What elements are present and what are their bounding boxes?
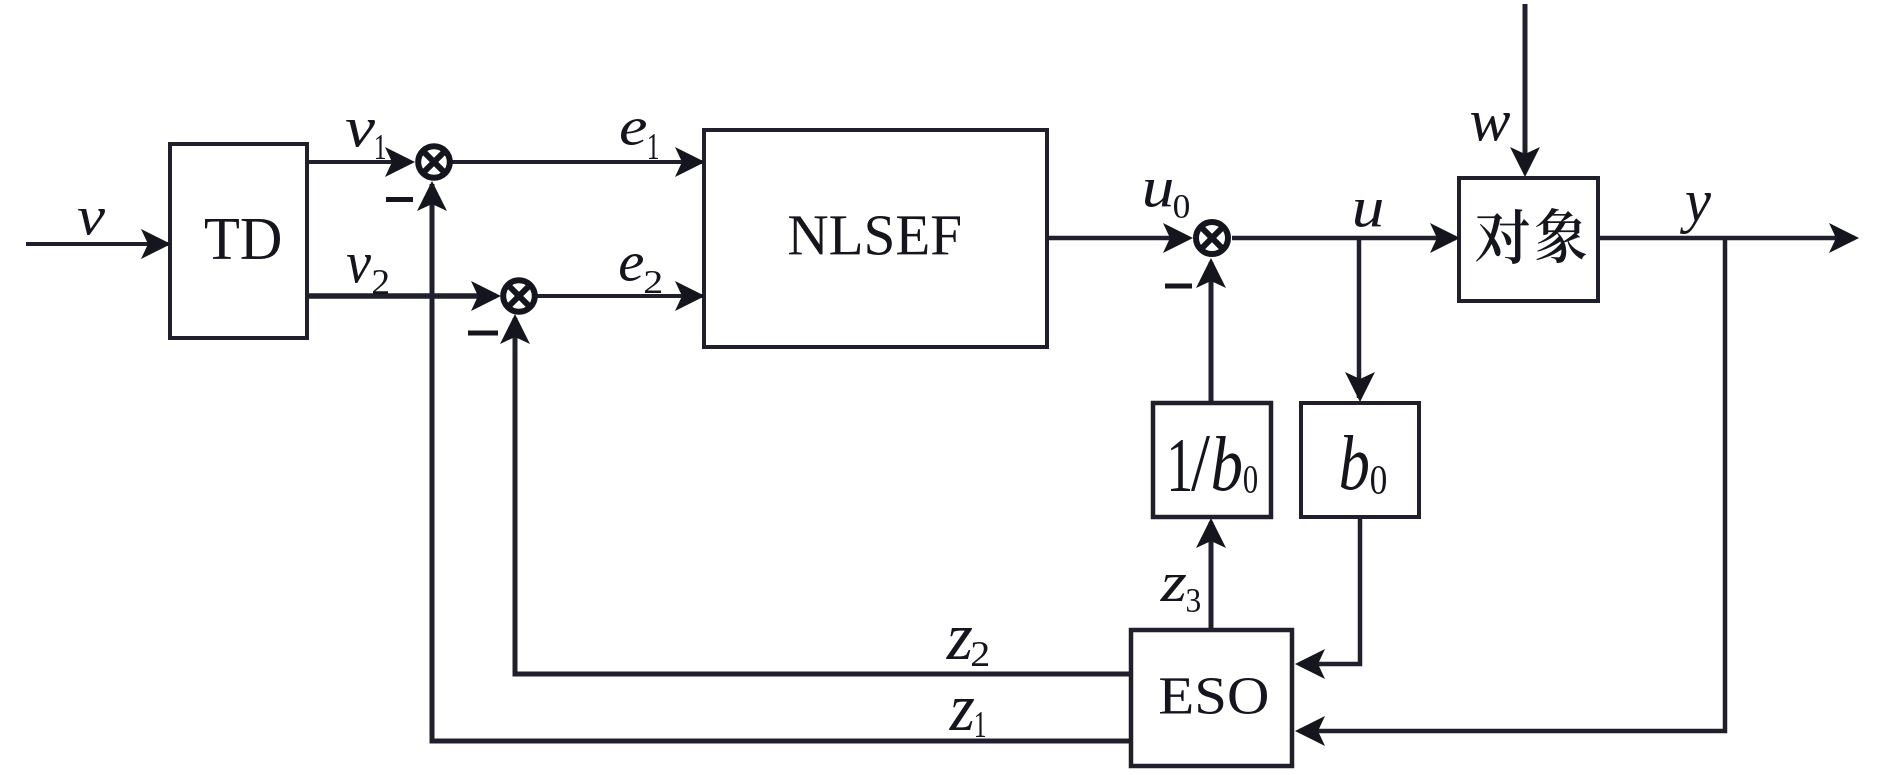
- block ESO box: [1131, 630, 1292, 766]
- summing junction sum3: [1196, 222, 1228, 254]
- wire u0 from NLSEF to sum3: [1047, 236, 1188, 241]
- label TD: [205, 219, 280, 259]
- label b0: [1341, 435, 1368, 490]
- arrowhead b0 into ESO: [1295, 649, 1325, 679]
- wire v2 from TD to sum2: [307, 293, 496, 299]
- wire u from sum3 to plant: [1232, 236, 1456, 241]
- label plant text duixiang: [1476, 209, 1529, 264]
- label z3: [1160, 575, 1186, 601]
- arrowhead 1/b0 into sum3: [1196, 258, 1226, 288]
- wire v input: [26, 242, 168, 246]
- label v2: [347, 255, 371, 283]
- label NLSEF: [789, 216, 960, 255]
- label u0: [1145, 180, 1172, 207]
- wire u branch down to b0: [1357, 238, 1362, 398]
- wire e2 from sum2 to NLSEF: [536, 294, 702, 298]
- block TD box: [170, 144, 307, 338]
- arrowhead z2 into sum2: [500, 314, 530, 344]
- arrowhead y output end: [1829, 223, 1859, 253]
- wire v1 from TD to sum1: [307, 160, 410, 164]
- block 1/b0 box: [1153, 403, 1271, 517]
- label z2: [946, 628, 972, 659]
- arrowhead v1 into sum1: [385, 147, 415, 177]
- block b0 box: [1301, 403, 1419, 517]
- arrowhead e1 into NLSEF: [675, 147, 705, 177]
- label u: [1355, 200, 1382, 227]
- label e2: [620, 254, 643, 281]
- summing junction sum1: [418, 146, 450, 178]
- block plant box (duixiang): [1459, 178, 1598, 301]
- arrowhead v2 into sum2: [471, 281, 501, 311]
- arrowhead e2 into NLSEF: [675, 281, 705, 311]
- summing junction sum2: [503, 280, 535, 312]
- wire z3 from ESO up to 1/b0: [1209, 522, 1214, 630]
- arrowhead u into plant: [1430, 223, 1460, 253]
- arrowhead v into TD: [141, 229, 171, 259]
- wire y output: [1598, 236, 1855, 241]
- wire w disturbance into plant: [1523, 4, 1528, 172]
- label z1: [949, 699, 974, 730]
- arrowhead z3 into 1/b0: [1196, 518, 1226, 548]
- arrowhead z1 into sum1: [417, 181, 447, 211]
- wire z2 from ESO to sum2: [515, 318, 1131, 674]
- label y: [1680, 193, 1711, 234]
- minus sign at sum3: [1165, 284, 1192, 289]
- label w: [1471, 113, 1510, 141]
- label 1/b0: [1171, 440, 1190, 491]
- wire b0 output into ESO: [1299, 517, 1360, 664]
- label v1: [346, 120, 375, 147]
- label v: [78, 209, 105, 235]
- wire z1 from ESO to sum1: [432, 184, 1131, 741]
- arrowhead u0 into sum3: [1163, 223, 1193, 253]
- label e1: [621, 119, 646, 145]
- wire 1/b0 output up to sum3: [1209, 262, 1214, 403]
- wire e1 from sum1 to NLSEF: [450, 160, 702, 164]
- minus sign at sum1: [386, 197, 413, 202]
- wire y feedback down into ESO: [1299, 238, 1725, 731]
- arrowhead y feedback into ESO: [1295, 716, 1325, 746]
- block NLSEF box: [704, 130, 1047, 347]
- minus sign at sum2: [468, 331, 498, 336]
- arrowhead w into plant: [1510, 147, 1540, 177]
- label ESO: [1160, 678, 1267, 714]
- arrowhead u into b0: [1345, 372, 1375, 402]
